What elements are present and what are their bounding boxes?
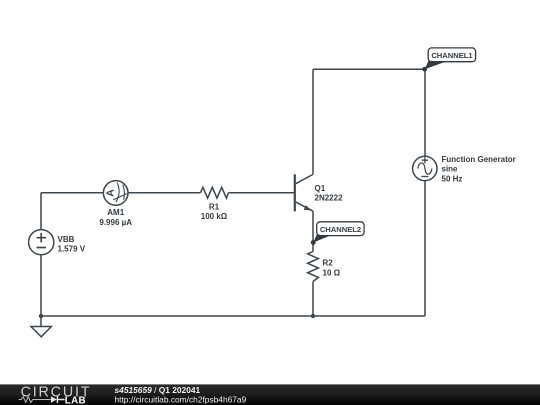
svg-text:CHANNEL1: CHANNEL1 [431, 51, 473, 60]
wire collector vertical [312, 69, 314, 174]
svg-text:2N2222: 2N2222 [315, 194, 344, 203]
ammeter AM1 [103, 181, 128, 206]
ground [31, 316, 51, 337]
wire emitter vertical [312, 211, 314, 316]
svg-text:http://circuitlab.com/ch2fpsb4: http://circuitlab.com/ch2fpsb4h67a9 [115, 395, 247, 405]
probe flag CHANNEL1 [425, 48, 476, 69]
wire function generator column [424, 69, 426, 316]
svg-text:A: A [105, 189, 117, 197]
svg-text:Q1: Q1 [315, 184, 326, 193]
label VBB [58, 235, 86, 253]
function generator V1 [413, 156, 437, 180]
svg-text:100 kΩ: 100 kΩ [201, 212, 228, 221]
logo CircuitLab [19, 385, 91, 405]
svg-text:AM1: AM1 [107, 208, 124, 217]
resistor R1 [201, 187, 229, 198]
junction dot VBB bottom [39, 314, 43, 318]
svg-text:9.996 µA: 9.996 µA [99, 218, 132, 227]
wire top rail collector to generator [313, 68, 425, 70]
svg-text:R1: R1 [209, 202, 220, 211]
svg-text:CHANNEL2: CHANNEL2 [320, 225, 361, 234]
svg-text:VBB: VBB [58, 235, 75, 244]
footer credits text [115, 385, 247, 405]
resistor R2 [308, 252, 319, 282]
wire left vertical VBB column [40, 193, 42, 316]
svg-text:sine: sine [442, 165, 459, 174]
svg-text:10 Ω: 10 Ω [323, 269, 341, 278]
voltage source VBB [29, 230, 54, 255]
label R1 [201, 202, 228, 221]
svg-text:1.579 V: 1.579 V [58, 244, 86, 253]
node CHANNEL2 dot [311, 240, 316, 245]
wire base row: VBB top corner to transistor base [41, 192, 294, 194]
svg-text:Function Generator: Function Generator [442, 155, 516, 164]
label Q1 [315, 184, 344, 203]
junction dot emitter bottom [311, 314, 315, 318]
label AM1 [99, 208, 132, 227]
node CHANNEL1 dot [422, 67, 427, 72]
label function generator [442, 155, 516, 183]
svg-text:s4515659 / Q1 202041: s4515659 / Q1 202041 [115, 385, 201, 395]
svg-text:R2: R2 [323, 259, 334, 268]
transistor Q1 [295, 174, 313, 211]
label R2 [323, 259, 341, 278]
probe flag CHANNEL2 [313, 222, 364, 243]
svg-text:50 Hz: 50 Hz [442, 174, 463, 183]
wire bottom rail [41, 315, 425, 317]
svg-text:LAB: LAB [65, 395, 86, 405]
